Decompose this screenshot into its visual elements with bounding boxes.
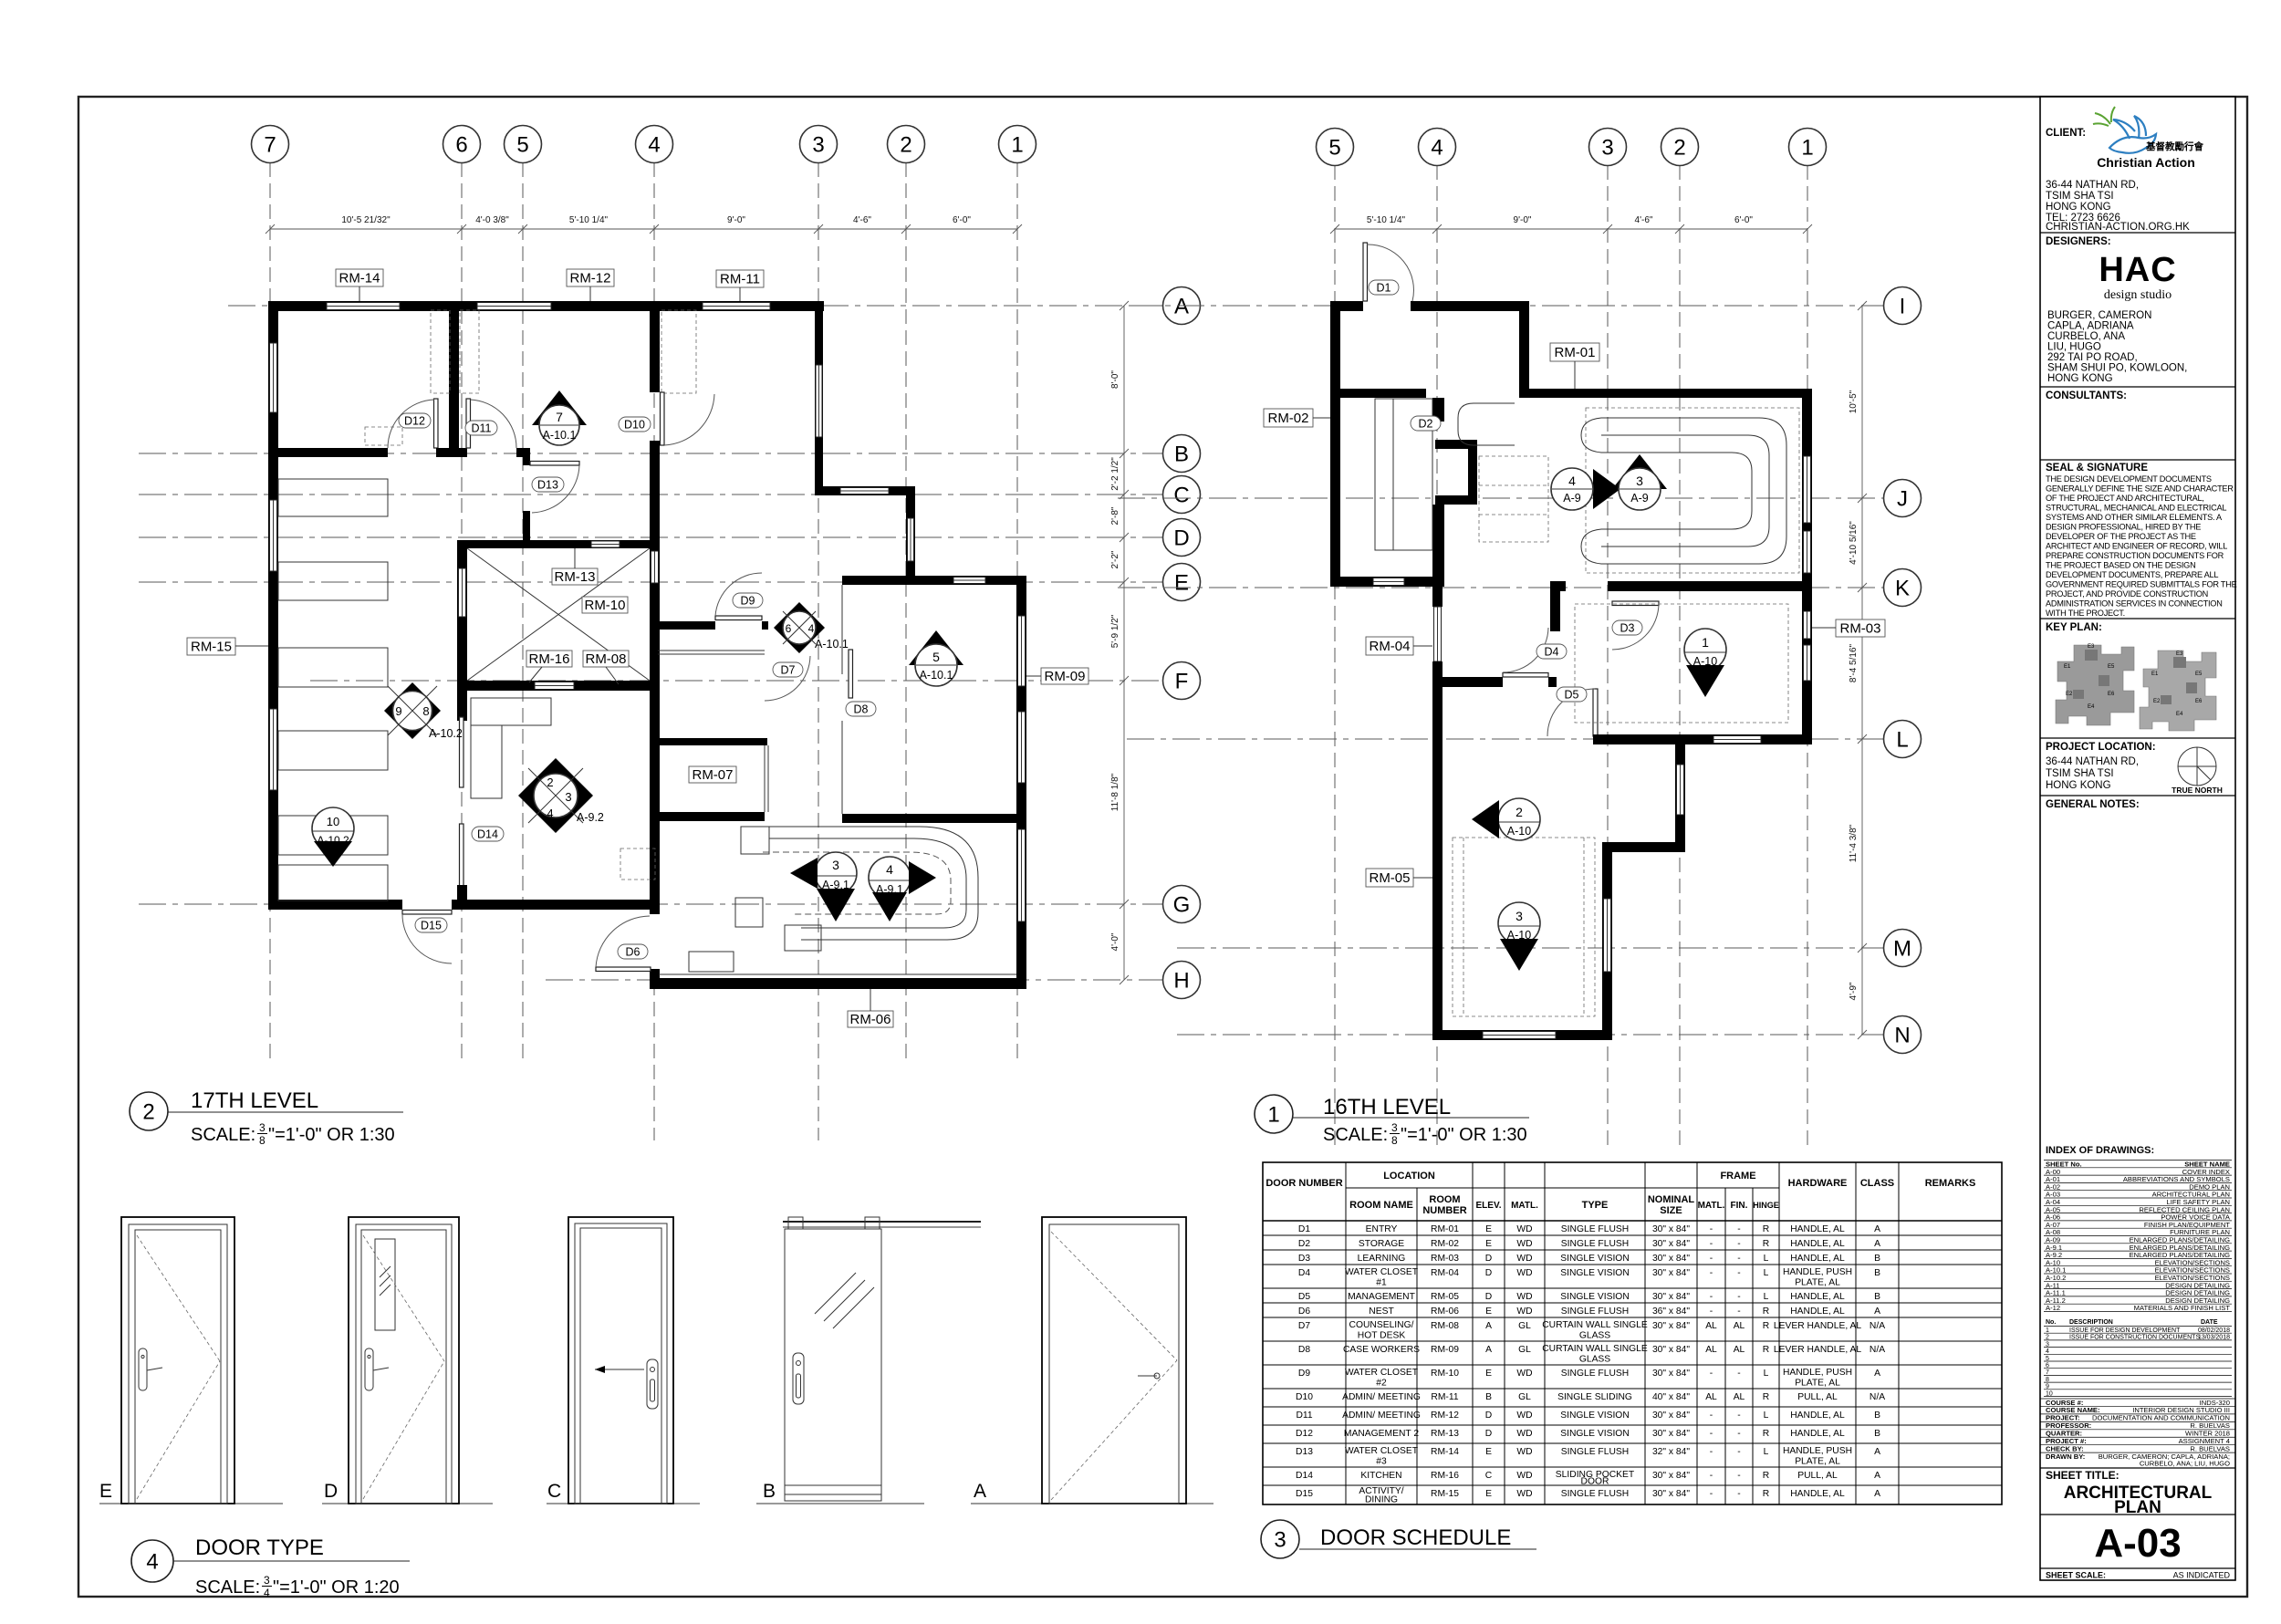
svg-text:E6: E6	[2108, 692, 2115, 697]
svg-text:4: 4	[1431, 136, 1443, 161]
view marker 2-3-4/A-9.2	[518, 758, 604, 833]
svg-text:RM-13: RM-13	[1431, 1429, 1459, 1439]
svg-text:SCALE:: SCALE:	[1323, 1125, 1388, 1145]
dove wing back	[2113, 120, 2135, 139]
svg-text:STRUCTURAL, MECHANICAL AND ELE: STRUCTURAL, MECHANICAL AND ELECTRICAL	[2046, 504, 2226, 513]
plan2 column bubbles	[1317, 129, 1827, 166]
svg-text:K: K	[1895, 577, 1910, 601]
svg-text:"=1'-0" OR 1:30: "=1'-0" OR 1:30	[268, 1125, 395, 1145]
plan1 title: circle 2	[130, 1088, 403, 1147]
svg-text:GENERAL NOTES:: GENERAL NOTES:	[2046, 799, 2140, 810]
svg-text:D14: D14	[1296, 1471, 1313, 1481]
sofa arm top	[1581, 418, 1601, 453]
svg-text:3: 3	[832, 858, 839, 872]
svg-text:B: B	[1874, 1254, 1880, 1264]
door D9 swing	[715, 573, 762, 616]
room label RM-10	[582, 597, 628, 613]
wall: grid-3 (RM-11 right)	[815, 311, 823, 486]
svg-text:THE DESIGN DEVELOPMENT DOCUMEN: THE DESIGN DEVELOPMENT DOCUMENTS	[2046, 474, 2212, 484]
svg-text:-: -	[1737, 1429, 1740, 1439]
svg-text:RM-10: RM-10	[1431, 1369, 1459, 1379]
svg-text:A: A	[1874, 1306, 1880, 1317]
window RM-04 left wall	[1434, 607, 1442, 661]
plan2 title: circle 1	[1255, 1095, 1529, 1147]
svg-text:PREPARE CONSTRUCTION DOCUMENTS: PREPARE CONSTRUCTION DOCUMENTS FOR	[2046, 551, 2224, 560]
svg-text:32" x 84": 32" x 84"	[1652, 1447, 1690, 1457]
svg-text:5: 5	[932, 650, 940, 664]
svg-text:E1: E1	[2064, 664, 2071, 670]
svg-text:RM-12: RM-12	[569, 271, 610, 286]
svg-text:WATER CLOSET: WATER CLOSET	[1345, 1368, 1419, 1378]
room label RM-13	[552, 548, 598, 585]
svg-text:WATER CLOSET: WATER CLOSET	[1345, 1446, 1419, 1456]
svg-text:HANDLE, PUSH: HANDLE, PUSH	[1783, 1267, 1852, 1277]
svg-text:CURBELO, ANA: CURBELO, ANA	[2047, 331, 2125, 342]
svg-text:AL: AL	[1705, 1392, 1717, 1402]
svg-text:30" x 84": 30" x 84"	[1652, 1429, 1690, 1439]
room label RM-16	[526, 651, 572, 682]
svg-text:ARCHITECT AND ENGINEER OF RECO: ARCHITECT AND ENGINEER OF RECORD, WILL	[2046, 542, 2227, 551]
svg-text:RM-07: RM-07	[692, 767, 733, 783]
plan1 row bubbles	[1163, 287, 1201, 999]
window RM-03 right 2	[1804, 645, 1811, 681]
wall: left exterior grid-5	[1330, 301, 1340, 587]
room label RM-08	[583, 651, 629, 684]
svg-text:30" x 84": 30" x 84"	[1652, 1321, 1690, 1331]
svg-text:2'-2": 2'-2"	[1110, 550, 1120, 568]
svg-text:CLIENT:: CLIENT:	[2046, 128, 2086, 139]
RM-01 sofa dashed boundary	[1586, 408, 1799, 573]
svg-text:E5: E5	[2195, 671, 2203, 677]
svg-text:11'-4 3/8": 11'-4 3/8"	[1849, 824, 1859, 862]
svg-text:RM-09: RM-09	[1044, 669, 1085, 684]
svg-text:KITCHEN: KITCHEN	[1360, 1471, 1401, 1481]
door D3 leaf	[1612, 601, 1659, 606]
svg-text:design studio: design studio	[2104, 288, 2172, 302]
svg-text:TSIM SHA TSI: TSIM SHA TSI	[2046, 768, 2114, 779]
svg-text:E3: E3	[2088, 644, 2095, 650]
svg-text:D9: D9	[741, 595, 755, 608]
svg-text:-: -	[1710, 1447, 1713, 1457]
svg-text:2'-2 1/2": 2'-2 1/2"	[1110, 457, 1120, 491]
svg-text:RM-11: RM-11	[1431, 1392, 1458, 1402]
svg-text:R: R	[1763, 1471, 1769, 1481]
svg-text:CURBELO, ANA; LIU, HUGO: CURBELO, ANA; LIU, HUGO	[2140, 1460, 2230, 1468]
svg-text:SINGLE FLUSH: SINGLE FLUSH	[1561, 1489, 1629, 1499]
door type E	[99, 1217, 283, 1504]
wall: top exterior row-I	[1330, 301, 1529, 311]
plan1 right dimension line	[1110, 301, 1129, 984]
svg-text:L: L	[1896, 728, 1908, 753]
svg-text:-: -	[1710, 1292, 1713, 1302]
svg-text:PLATE, AL: PLATE, AL	[1795, 1457, 1840, 1467]
svg-text:SINGLE VISION: SINGLE VISION	[1560, 1268, 1630, 1278]
svg-text:36" x 84": 36" x 84"	[1652, 1306, 1690, 1317]
svg-text:WD: WD	[1516, 1239, 1532, 1249]
svg-text:L: L	[1764, 1369, 1769, 1379]
wall: bottom exterior (row H)	[650, 978, 1026, 989]
svg-text:RM-06: RM-06	[849, 1012, 891, 1027]
svg-text:HANDLE, AL: HANDLE, AL	[1790, 1411, 1845, 1421]
svg-text:SINGLE FLUSH: SINGLE FLUSH	[1561, 1224, 1629, 1234]
window RM-13 left wall	[459, 568, 466, 617]
svg-text:DOOR SCHEDULE: DOOR SCHEDULE	[1320, 1525, 1511, 1550]
svg-text:-: -	[1710, 1254, 1713, 1264]
room label RM-15	[187, 638, 268, 655]
room label RM-01	[1550, 343, 1599, 389]
svg-text:D8: D8	[1298, 1345, 1310, 1355]
svg-text:SHEET SCALE:: SHEET SCALE:	[2046, 1571, 2106, 1580]
svg-text:RM-01: RM-01	[1554, 345, 1595, 360]
svg-text:E4: E4	[2176, 712, 2183, 717]
svg-text:A: A	[1874, 1489, 1880, 1499]
RM-02 closet thin outline	[1375, 399, 1432, 550]
svg-text:10'-5 21/32": 10'-5 21/32"	[341, 215, 391, 225]
window RM-02 bottom	[1373, 578, 1404, 586]
svg-text:E5: E5	[2108, 664, 2115, 670]
svg-text:4: 4	[146, 1550, 158, 1575]
svg-text:AL: AL	[1734, 1345, 1745, 1355]
glass partition right of RM-07	[764, 745, 766, 812]
svg-text:STORAGE: STORAGE	[1359, 1239, 1404, 1249]
svg-text:-: -	[1710, 1489, 1713, 1499]
RM-15 shelf row 2	[278, 562, 388, 600]
course info table	[2040, 1399, 2235, 1468]
door D10 leaf	[661, 392, 665, 445]
closet dashed right of grid-4 wall	[661, 310, 696, 393]
svg-text:B: B	[1874, 1268, 1880, 1278]
svg-text:WD: WD	[1516, 1471, 1532, 1481]
svg-text:3: 3	[1515, 909, 1523, 923]
svg-text:PLATE, AL: PLATE, AL	[1795, 1379, 1840, 1389]
svg-text:5: 5	[516, 133, 528, 158]
view marker 10/A-10.2	[312, 807, 354, 867]
view marker 6-4/A-10.1	[774, 602, 849, 653]
key plan image left	[2056, 645, 2216, 731]
svg-text:6'-0": 6'-0"	[1734, 215, 1753, 225]
svg-text:SCALE:: SCALE:	[191, 1125, 255, 1145]
door D14 pocket leaf lower	[460, 824, 464, 888]
svg-text:D11: D11	[1296, 1411, 1312, 1421]
svg-text:SINGLE VISION: SINGLE VISION	[1560, 1292, 1630, 1302]
svg-text:2'-8": 2'-8"	[1110, 506, 1120, 525]
svg-text:-: -	[1737, 1292, 1740, 1302]
view marker 4/A-9.1	[869, 857, 936, 921]
svg-text:N/A: N/A	[1870, 1345, 1885, 1355]
svg-text:J: J	[1897, 487, 1908, 512]
svg-text:MATL.: MATL.	[1698, 1201, 1725, 1211]
svg-text:RM-10: RM-10	[584, 598, 625, 613]
window jog wall	[1677, 765, 1684, 815]
svg-text:1: 1	[1702, 635, 1709, 650]
view marker 2/A-10	[1472, 798, 1540, 840]
door schedule table frame	[1263, 1162, 2002, 1504]
wall: grid-2 jog vertical	[1675, 734, 1685, 852]
svg-text:KEY PLAN:: KEY PLAN:	[2046, 622, 2102, 633]
svg-text:D3: D3	[1298, 1254, 1310, 1264]
svg-text:B: B	[1874, 1411, 1880, 1421]
svg-text:R: R	[1763, 1239, 1769, 1249]
door tag D1	[1369, 280, 1399, 295]
window RM-13 top	[591, 541, 620, 547]
svg-text:-: -	[1737, 1239, 1740, 1249]
window left wall 2	[270, 500, 277, 571]
svg-text:4: 4	[264, 1587, 270, 1599]
svg-text:INDEX OF DRAWINGS:: INDEX OF DRAWINGS:	[2046, 1145, 2154, 1156]
door tag D8	[846, 702, 876, 716]
svg-text:WD: WD	[1516, 1489, 1532, 1499]
plan1 grid row lines	[228, 305, 1162, 307]
svg-text:G: G	[1173, 893, 1191, 918]
svg-text:30" x 84": 30" x 84"	[1652, 1292, 1690, 1302]
door tag D9	[733, 593, 763, 608]
svg-text:4'-6": 4'-6"	[853, 215, 871, 225]
svg-text:D4: D4	[1545, 646, 1559, 659]
svg-text:CURTAIN WALL SINGLE: CURTAIN WALL SINGLE	[1542, 1344, 1648, 1354]
svg-text:#1: #1	[1376, 1278, 1387, 1288]
dove wing front	[2134, 116, 2146, 139]
svg-text:WD: WD	[1516, 1411, 1532, 1421]
svg-text:A: A	[1485, 1345, 1492, 1355]
svg-text:SEAL & SIGNATURE: SEAL & SIGNATURE	[2046, 463, 2148, 474]
svg-text:E1: E1	[2151, 671, 2159, 677]
svg-text:2: 2	[547, 776, 553, 789]
svg-text:OF THE PROJECT AND ARCHITECTUR: OF THE PROJECT AND ARCHITECTURAL,	[2046, 494, 2204, 503]
svg-text:-: -	[1710, 1306, 1713, 1317]
svg-text:SINGLE VISION: SINGLE VISION	[1560, 1411, 1630, 1421]
door D9 leaf	[715, 616, 762, 620]
svg-text:AL: AL	[1705, 1321, 1717, 1331]
svg-text:SINGLE FLUSH: SINGLE FLUSH	[1561, 1447, 1629, 1457]
svg-text:AL: AL	[1734, 1392, 1745, 1402]
svg-text:M: M	[1893, 937, 1911, 962]
inner face line bottom wall	[659, 973, 1016, 975]
svg-text:CONSULTANTS:: CONSULTANTS:	[2046, 390, 2127, 401]
window RM-05 bottom	[1483, 1032, 1556, 1039]
svg-text:30" x 84": 30" x 84"	[1652, 1268, 1690, 1278]
door D13 swing	[532, 465, 579, 513]
svg-text:CASE WORKERS: CASE WORKERS	[1343, 1345, 1420, 1355]
svg-text:DEVELOPER OF THE PROJECT AS TH: DEVELOPER OF THE PROJECT AS THE	[2046, 532, 2196, 541]
svg-text:L: L	[1764, 1447, 1769, 1457]
plan2 grid column lines	[1334, 165, 1336, 1145]
window RM-09 top	[953, 578, 985, 584]
svg-text:RM-05: RM-05	[1369, 870, 1410, 886]
dove body	[2109, 134, 2156, 153]
svg-text:SINGLE FLUSH: SINGLE FLUSH	[1561, 1239, 1629, 1249]
svg-text:D5: D5	[1565, 689, 1579, 702]
svg-text:E: E	[1485, 1489, 1492, 1499]
svg-text:E: E	[1485, 1239, 1492, 1249]
svg-text:HANDLE, PUSH: HANDLE, PUSH	[1783, 1446, 1852, 1456]
wall: zigzag upper horizontal	[1435, 440, 1477, 449]
svg-text:SYSTEMS AND OTHER SIMILAR ELEM: SYSTEMS AND OTHER SIMILAR ELEMENTS. A	[2046, 513, 2223, 522]
wall: RM-04 bottom	[1432, 677, 1503, 687]
door tag D4	[1536, 644, 1567, 659]
wall: RM-05 bottom row-N	[1432, 1030, 1612, 1040]
svg-text:D: D	[324, 1481, 338, 1502]
svg-text:"=1'-0" OR 1:20: "=1'-0" OR 1:20	[273, 1577, 400, 1598]
wall: corridor RM-08 top	[650, 621, 715, 630]
door D6 leaf	[596, 967, 651, 972]
svg-text:CURTAIN WALL SINGLE: CURTAIN WALL SINGLE	[1542, 1320, 1648, 1330]
door D11 swing	[471, 400, 517, 448]
svg-text:B: B	[1174, 442, 1189, 467]
closet dashed right of grid-6 wall	[460, 310, 479, 393]
svg-text:E: E	[1174, 571, 1189, 596]
svg-text:GLASS: GLASS	[1579, 1355, 1610, 1365]
svg-text:30" x 84": 30" x 84"	[1652, 1254, 1690, 1264]
svg-text:HANDLE, AL: HANDLE, AL	[1790, 1292, 1845, 1302]
svg-text:-: -	[1737, 1224, 1740, 1234]
svg-text:3: 3	[565, 790, 571, 804]
svg-text:GLASS: GLASS	[1579, 1331, 1610, 1341]
svg-text:L: L	[1764, 1411, 1769, 1421]
RM-15 shelf row 4	[278, 731, 388, 770]
svg-text:H: H	[1173, 969, 1189, 994]
svg-text:A: A	[1874, 1239, 1880, 1249]
svg-text:D: D	[1485, 1292, 1492, 1302]
svg-text:PULL, AL: PULL, AL	[1797, 1471, 1838, 1481]
svg-text:6'-0": 6'-0"	[953, 215, 971, 225]
window RM-09 right 1	[1018, 616, 1026, 686]
section divider lines	[2040, 232, 2235, 234]
wall: zigzag left vertical	[1432, 505, 1444, 587]
svg-text:MATL.: MATL.	[1511, 1201, 1538, 1211]
svg-text:R: R	[1763, 1345, 1769, 1355]
svg-text:ADMINISTRATION SERVICES IN CON: ADMINISTRATION SERVICES IN CONNECTION	[2046, 599, 2223, 609]
room label RM-07	[689, 766, 736, 783]
door D5 leaf	[1593, 689, 1598, 736]
svg-text:RM-11: RM-11	[720, 272, 760, 287]
svg-text:R: R	[1763, 1489, 1769, 1499]
wall: grid-5 stub above RM-13	[523, 511, 530, 548]
wall: lower-right exterior grid-1	[1016, 814, 1026, 989]
door tag D5	[1557, 687, 1587, 702]
door type B (glass sliding)	[756, 1217, 981, 1504]
svg-text:D: D	[1173, 526, 1189, 551]
room label RM-06	[848, 989, 893, 1027]
svg-text:GL: GL	[1518, 1321, 1531, 1331]
svg-text:RM-03: RM-03	[1431, 1254, 1459, 1264]
wall: row-B right stub	[516, 448, 530, 457]
svg-text:R: R	[1763, 1321, 1769, 1331]
svg-text:RM-02: RM-02	[1267, 411, 1308, 426]
svg-text:PULL, AL: PULL, AL	[1797, 1392, 1838, 1402]
svg-text:D12: D12	[404, 415, 425, 428]
wall: RM-04 left lower	[1432, 661, 1443, 687]
wall: right exterior grid-1 upper	[1802, 389, 1812, 601]
svg-text:2: 2	[1673, 136, 1685, 161]
door D8 leaf	[849, 650, 853, 698]
svg-text:D: D	[1485, 1429, 1492, 1439]
svg-text:A-10.2: A-10.2	[429, 727, 463, 740]
svg-text:D6: D6	[626, 946, 641, 959]
window grid-2 wall	[908, 518, 914, 561]
svg-text:C: C	[1485, 1471, 1493, 1481]
svg-text:-: -	[1710, 1429, 1713, 1439]
svg-text:D13: D13	[1296, 1447, 1313, 1457]
svg-text:L: L	[1764, 1254, 1769, 1264]
svg-text:DOOR TYPE: DOOR TYPE	[195, 1536, 324, 1560]
svg-text:WD: WD	[1516, 1447, 1532, 1457]
svg-text:-: -	[1710, 1369, 1713, 1379]
svg-text:5'-9 1/2": 5'-9 1/2"	[1110, 614, 1120, 648]
wall: row-K right segment	[1608, 581, 1812, 591]
door D12 leaf	[434, 399, 439, 448]
svg-text:RM-04: RM-04	[1369, 639, 1410, 654]
svg-text:DEVELOPMENT DOCUMENTS, PREPARE: DEVELOPMENT DOCUMENTS, PREPARE ALL	[2046, 570, 2218, 579]
svg-text:DOOR: DOOR	[1581, 1477, 1609, 1487]
svg-text:D8: D8	[854, 703, 869, 716]
svg-text:HINGE: HINGE	[1753, 1201, 1779, 1210]
svg-text:HONG KONG: HONG KONG	[2047, 373, 2113, 384]
view marker 1/A-10	[1684, 617, 1726, 697]
RM-05 wardrobe dashed left	[1463, 838, 1464, 1016]
svg-text:B: B	[763, 1481, 776, 1502]
svg-text:MANAGEMENT 2: MANAGEMENT 2	[1344, 1429, 1419, 1439]
svg-text:16TH LEVEL: 16TH LEVEL	[1323, 1095, 1451, 1119]
door D4 swing	[1503, 628, 1548, 672]
window grid-4 wall	[651, 551, 659, 583]
plan2 grid row lines	[1131, 305, 1883, 307]
door tag D13	[532, 477, 564, 492]
svg-text:AL: AL	[1705, 1345, 1717, 1355]
svg-text:REMARKS: REMARKS	[1925, 1178, 1976, 1189]
svg-text:TYPE: TYPE	[1582, 1200, 1609, 1211]
svg-text:11'-8 1/8": 11'-8 1/8"	[1110, 773, 1120, 811]
svg-text:8: 8	[259, 1134, 266, 1147]
svg-text:RM-16: RM-16	[528, 651, 569, 667]
kitchen counter top	[471, 698, 551, 725]
svg-text:WITH THE PROJECT.: WITH THE PROJECT.	[2046, 609, 2125, 618]
svg-text:D12: D12	[1296, 1429, 1313, 1439]
svg-text:SHEET TITLE:: SHEET TITLE:	[2046, 1469, 2120, 1482]
wall: RM-02 bottom row-K	[1330, 577, 1443, 587]
svg-text:3: 3	[259, 1121, 266, 1134]
door tag D15	[415, 918, 447, 932]
svg-text:TRUE NORTH: TRUE NORTH	[2172, 786, 2223, 795]
wall: RM-07 bottom	[650, 812, 765, 821]
wall: jog vertical grid-3ish	[1519, 301, 1529, 398]
svg-text:17TH LEVEL: 17TH LEVEL	[191, 1088, 318, 1113]
svg-text:HANDLE, AL: HANDLE, AL	[1790, 1254, 1845, 1264]
svg-text:6: 6	[455, 133, 467, 158]
kitchen dashed appliance	[620, 848, 655, 880]
svg-text:RM-15: RM-15	[1431, 1489, 1459, 1499]
svg-text:30" x 84": 30" x 84"	[1652, 1489, 1690, 1499]
svg-text:CAPLA, ADRIANA: CAPLA, ADRIANA	[2047, 321, 2134, 332]
wall: grid-6 upper (RM-14 / RM-12 divider)	[449, 311, 459, 453]
svg-text:3: 3	[1391, 1121, 1398, 1134]
svg-text:#3: #3	[1376, 1457, 1387, 1467]
svg-text:R: R	[1763, 1392, 1769, 1402]
svg-text:ADMIN/ MEETING: ADMIN/ MEETING	[1342, 1411, 1421, 1421]
svg-text:CLASS: CLASS	[1860, 1178, 1894, 1189]
door D15 gap	[402, 899, 452, 911]
RM-03 dashed floor outline	[1575, 604, 1788, 723]
svg-text:-: -	[1737, 1489, 1740, 1499]
svg-text:3: 3	[1636, 474, 1643, 488]
svg-text:E2: E2	[2153, 699, 2161, 704]
door tag D10	[619, 417, 651, 432]
svg-text:SINGLE FLUSH: SINGLE FLUSH	[1561, 1306, 1629, 1317]
room label RM-14	[336, 269, 383, 301]
svg-text:3: 3	[1601, 136, 1613, 161]
svg-text:-: -	[1737, 1254, 1740, 1264]
svg-text:LEARNING: LEARNING	[1358, 1254, 1406, 1264]
reception desk overhang dashed	[763, 852, 951, 914]
